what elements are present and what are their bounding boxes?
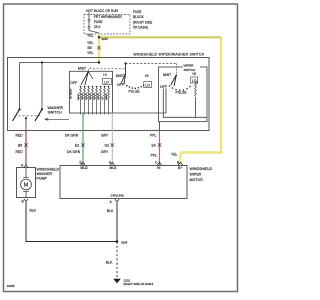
ladder position labels: [70, 88, 109, 100]
svg-text:HI: HI: [193, 72, 196, 76]
svg-text:YEL: YEL: [171, 153, 178, 157]
svg-text:94025: 94025: [7, 284, 15, 288]
mechanical link dashed: [91, 64, 177, 69]
svg-text:WASH: WASH: [105, 93, 108, 100]
svg-text:DK GRN: DK GRN: [65, 134, 79, 138]
svg-text:B: B: [22, 200, 25, 204]
svg-text:HI: HI: [103, 73, 106, 77]
label WIPER SWITCH: [183, 62, 200, 72]
svg-text:YEL: YEL: [87, 33, 94, 37]
fuse block dashed box: [84, 15, 130, 35]
svg-text:BLK: BLK: [107, 209, 114, 213]
svg-text:OFF: OFF: [117, 83, 124, 87]
svg-text:DELAY: DELAY: [93, 92, 96, 100]
svg-text:GROUND: GROUND: [111, 193, 125, 197]
svg-text:PULSE: PULSE: [176, 91, 188, 95]
svg-text:DELAY: DELAY: [85, 92, 88, 100]
wire YEL jog from fuse to splice: [98, 34, 100, 38]
svg-text:PULSE: PULSE: [129, 90, 141, 94]
connector cavity E2: [75, 143, 85, 147]
washer switch common contact: [25, 116, 28, 130]
wire BLK pump to splice: [26, 202, 117, 242]
washer feed bus wire: [20, 62, 100, 64]
connector cavity B6: [18, 143, 28, 147]
wire YEL to motor horizontal: [181, 151, 223, 153]
wiper switch contact dots arc: [169, 85, 191, 91]
svg-text:B9: B9: [88, 46, 92, 50]
svg-text:DK GRN: DK GRN: [67, 150, 81, 154]
connector cavity G2: [105, 143, 115, 147]
washer pump box: [17, 168, 36, 198]
wire GRY drop: [111, 113, 113, 165]
wire YEL vertical from fuse: [98, 37, 100, 63]
washer switch gang dashed link: [15, 115, 41, 117]
wire BLK dashed to ground: [116, 242, 118, 279]
border frame: [4, 4, 238, 292]
svg-text:A: A: [110, 200, 113, 204]
svg-text:M: M: [24, 183, 29, 189]
svg-text:WASH: WASH: [77, 93, 80, 100]
svg-text:HI: HI: [145, 74, 148, 78]
delay switch pivot and levers: [81, 69, 93, 85]
svg-text:DELAY: DELAY: [97, 92, 100, 100]
svg-text:25 A: 25 A: [94, 25, 101, 29]
svg-text:A: A: [21, 164, 24, 168]
svg-text:(RIGHT SIDE OF DASH): (RIGHT SIDE OF DASH): [124, 282, 154, 286]
terminal A motor ground: [110, 199, 120, 204]
svg-text:B+: B+: [178, 166, 182, 170]
resistor ladder R1-R8: [80, 87, 110, 115]
wire YEL right side vertical: [220, 37, 222, 152]
svg-text:LO: LO: [104, 80, 109, 84]
wiper motor box: [60, 166, 187, 199]
wire YEL horizontal S240 to right side: [99, 36, 221, 38]
svg-text:WIPER: WIPER: [190, 173, 202, 177]
fuse F: FRT WIP/WASHER FUSE 25A: [88, 13, 99, 37]
svg-text:HOT IN ACC OR RUN: HOT IN ACC OR RUN: [86, 9, 118, 13]
svg-text:RED: RED: [16, 134, 24, 138]
svg-text:SWITCH: SWITCH: [48, 111, 63, 115]
svg-text:BLK: BLK: [106, 261, 113, 265]
terminal A wiper motor: [109, 160, 115, 165]
svg-text:FRT WIP/WASHER: FRT WIP/WASHER: [94, 15, 122, 19]
svg-text:MU2: MU2: [81, 166, 88, 170]
svg-text:C: C: [155, 161, 158, 165]
wire washer switch right leg: [41, 63, 43, 110]
svg-text:E4: E4: [152, 143, 156, 147]
internal bus wire: [113, 112, 167, 114]
terminal E wiper motor: [80, 160, 86, 165]
wire BLK motor to splice: [116, 203, 118, 242]
leader arrow: [45, 118, 69, 120]
splice S240: [98, 36, 100, 38]
washer pump motor M: [21, 168, 32, 198]
svg-text:BLK: BLK: [30, 208, 37, 212]
svg-text:MU1: MU1: [110, 166, 117, 170]
svg-text:WINDSHIELD: WINDSHIELD: [37, 167, 60, 171]
wiper switch sub-box: [159, 67, 208, 122]
resistor R7: [195, 82, 198, 96]
svg-text:LO: LO: [102, 97, 104, 100]
ground G201: [113, 279, 153, 287]
svg-text:E2: E2: [75, 143, 79, 147]
svg-text:MIST: MIST: [163, 73, 171, 77]
terminal C wiper motor: [155, 161, 162, 165]
wire washer switch left leg: [19, 63, 21, 110]
svg-text:FUSE: FUSE: [133, 10, 142, 14]
terminal A washer pump: [21, 164, 28, 168]
node YEL feed: [98, 61, 100, 63]
svg-text:BLOCK: BLOCK: [133, 15, 145, 19]
boxed LO: [103, 78, 112, 84]
wire bus right end up: [165, 89, 167, 114]
connector cavity E4: [152, 143, 162, 147]
svg-text:NO WASH: NO WASH: [70, 88, 73, 99]
wire DK GRN drop: [82, 113, 84, 165]
svg-text:MIST: MIST: [78, 67, 86, 71]
svg-text:MOTOR: MOTOR: [190, 178, 204, 182]
washer switch SW1 contacts: [13, 108, 44, 121]
mode switch pivot: [121, 62, 127, 84]
svg-text:WINDSHIELD WIPER/WASHER SWITCH: WINDSHIELD WIPER/WASHER SWITCH: [134, 52, 205, 56]
svg-text:G2: G2: [105, 143, 110, 147]
svg-text:PPL: PPL: [151, 154, 158, 158]
svg-text:DELAY: DELAY: [89, 92, 92, 100]
svg-text:LO: LO: [145, 84, 150, 88]
svg-text:YEL: YEL: [87, 41, 94, 45]
svg-text:S240: S240: [102, 37, 109, 41]
boxed LO: [144, 82, 152, 88]
windshield wiper/washer switch box: [8, 58, 210, 131]
delay switch sub-box: [70, 71, 113, 113]
wire RED drop: [25, 131, 27, 166]
svg-text:PUMP: PUMP: [37, 177, 48, 181]
svg-text:FUSE: FUSE: [94, 20, 103, 24]
terminal B washer pump: [22, 199, 29, 204]
svg-text:RED: RED: [16, 150, 24, 154]
wire PPL drop: [159, 122, 161, 131]
svg-text:B6: B6: [18, 143, 22, 147]
connector C202 cavity B9: [88, 46, 101, 50]
svg-text:GRY: GRY: [101, 150, 109, 154]
svg-text:GRY: GRY: [101, 134, 109, 138]
delay ladder contact dots: [80, 86, 110, 88]
svg-text:S208: S208: [121, 240, 128, 244]
svg-text:OFF: OFF: [70, 81, 77, 85]
svg-text:G201: G201: [124, 279, 131, 283]
svg-text:YEL: YEL: [87, 51, 94, 55]
splice S208: [116, 240, 128, 244]
wire YEL drop to motor B: [179, 153, 181, 165]
svg-text:PPL: PPL: [150, 134, 157, 138]
svg-text:WASHER: WASHER: [48, 106, 64, 110]
terminal B wiper motor: [177, 160, 183, 165]
node on washer bus: [41, 61, 43, 63]
svg-text:WASHER: WASHER: [37, 172, 53, 176]
svg-text:OF DASH): OF DASH): [133, 26, 148, 30]
svg-text:MIST: MIST: [116, 74, 124, 78]
wiper switch internal wire: [163, 89, 207, 118]
boxed LO: [191, 77, 198, 83]
svg-text:DELAY: DELAY: [81, 92, 84, 100]
svg-text:HI: HI: [157, 166, 160, 170]
wiper switch pivot: [171, 64, 177, 87]
svg-text:OFF: OFF: [160, 85, 167, 89]
svg-text:WINDSHIELD: WINDSHIELD: [190, 167, 213, 171]
mode switch contact dots arc: [126, 85, 144, 90]
svg-text:(RIGHT SIDE: (RIGHT SIDE: [133, 20, 152, 24]
